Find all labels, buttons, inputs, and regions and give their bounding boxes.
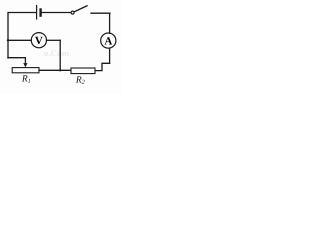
wire step to R2 (95, 63, 109, 70)
switch S lever (74, 6, 87, 12)
battery B1 long plate (36, 6, 38, 20)
wire switch right contact (91, 12, 110, 14)
svg-text:o.Com: o.Com (44, 48, 70, 58)
wire bottom-left to slider (8, 58, 25, 64)
svg-text:A: A (104, 35, 112, 47)
resistor R2 body (71, 68, 95, 74)
wire voltmeter left (8, 39, 31, 41)
wire right vertical to ammeter (109, 13, 111, 33)
wire ammeter bottom (109, 48, 111, 63)
wire R1 to R2 (39, 69, 71, 71)
battery B1 short plate (39, 10, 41, 16)
slider arrowhead (23, 63, 27, 67)
junction node left (7, 39, 9, 41)
junction node bottom (59, 69, 61, 71)
svg-text:V: V (35, 35, 43, 47)
wire voltmeter right (47, 39, 61, 41)
resistor R1 body (12, 68, 39, 73)
switch S pivot (71, 11, 74, 14)
wire voltmeter branch down (59, 40, 61, 70)
ammeter U2 circle (101, 33, 116, 48)
voltmeter U1 circle (31, 33, 46, 48)
wire battery to switch (42, 12, 71, 14)
wire left vertical and top-left (8, 13, 36, 59)
